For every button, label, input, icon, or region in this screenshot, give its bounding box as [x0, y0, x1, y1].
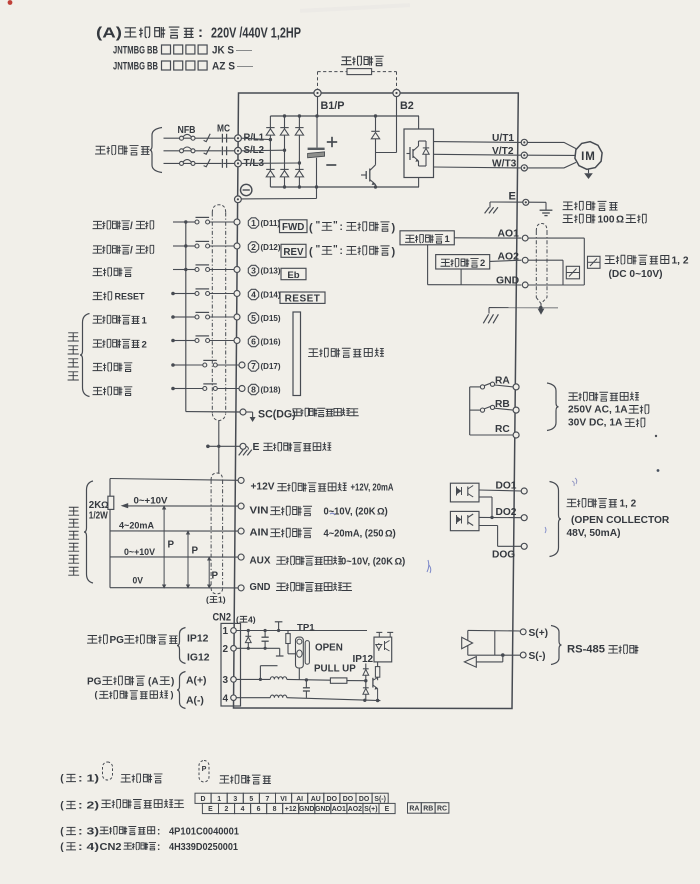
ground hatch shield E — [239, 446, 252, 455]
svg-text:RESET: RESET — [115, 292, 145, 303]
svg-text:3: 3 — [251, 266, 256, 276]
terminal E — [523, 199, 529, 205]
brake resistor label 刹车电阻 — [342, 56, 384, 65]
svg-text:AO1: AO1 — [498, 228, 520, 239]
wire DC- bottom bus — [270, 185, 419, 188]
terminal AO1 — [522, 235, 528, 241]
svg-text:(A: (A — [148, 676, 159, 687]
svg-text:RS-485: RS-485 — [567, 643, 605, 655]
svg-text::: : — [157, 827, 160, 838]
brace ext freq — [84, 481, 93, 583]
switch input 5 — [171, 312, 234, 319]
label 250V AC — [568, 404, 649, 415]
arrow P2 — [186, 530, 190, 589]
wire AUX row — [110, 556, 238, 558]
box FWD — [280, 220, 308, 233]
box REV — [281, 244, 306, 257]
terminal input 1 — [234, 219, 240, 225]
svg-text:IM: IM — [581, 151, 596, 163]
wire A+ to pullup — [287, 678, 331, 681]
svg-text:(: ( — [60, 801, 64, 812]
svg-text:(: ( — [309, 246, 313, 258]
switch input 6 — [171, 336, 234, 343]
meter M2 — [588, 256, 601, 268]
svg-text:FWD: FWD — [282, 222, 304, 233]
svg-text:CN2: CN2 — [100, 842, 123, 853]
label 电阻值100以下 — [563, 214, 647, 225]
svg-text:250V AC, 1A: 250V AC, 1A — [568, 404, 628, 415]
svg-text:——: —— — [236, 46, 252, 55]
svg-text:/: / — [130, 246, 133, 257]
terminal CN2-4 — [223, 693, 237, 704]
svg-text:VI: VI — [280, 796, 287, 803]
wire shield E — [206, 445, 240, 449]
terminal DOG — [521, 543, 527, 549]
node badge 8 — [248, 384, 258, 394]
brace open collector — [550, 482, 562, 557]
optocoupler DO2 — [450, 511, 479, 530]
potentiometer 2K — [108, 496, 114, 509]
note 1 — [60, 774, 99, 785]
connector CN2 block — [221, 623, 241, 706]
svg-text:(: ( — [60, 827, 64, 838]
box 类比输出1 — [400, 231, 454, 245]
svg-text:MC: MC — [217, 124, 231, 135]
wire CN2-4 A- — [236, 697, 270, 699]
svg-text:AIN: AIN — [250, 528, 269, 539]
svg-text:4~20mA: 4~20mA — [119, 520, 154, 531]
terminal V/T2 — [521, 152, 527, 158]
svg-text:(D18): (D18) — [261, 386, 281, 395]
terminal CN2-2 — [223, 644, 237, 655]
optocoupler IP12 — [374, 632, 393, 661]
terminal GND analog in — [238, 585, 244, 591]
svg-text:CN2: CN2 — [213, 612, 232, 624]
inverter module U1 — [404, 116, 434, 187]
label 48V 50mA — [567, 528, 621, 539]
wire A- row — [287, 698, 381, 703]
svg-text:DOG: DOG — [492, 550, 515, 561]
node badge 4 — [248, 289, 258, 299]
note 3 — [60, 827, 239, 838]
terminal DC minus — [235, 196, 242, 203]
svg-text:AI: AI — [296, 796, 303, 803]
label AUX row — [250, 556, 406, 568]
shielded cable envelope analog out — [536, 224, 547, 304]
terminal B1/P — [314, 89, 321, 96]
label 多机能输出1,2 — [567, 499, 637, 510]
svg-text:JNTMBG BB: JNTMBG BB — [113, 45, 158, 57]
svg-text:0~10V, (20K: 0~10V, (20K — [324, 507, 376, 518]
arrow P1 — [162, 505, 166, 589]
svg-text:: 2): : 2) — [78, 801, 99, 812]
svg-text:AO2: AO2 — [498, 252, 520, 263]
svg-text:2: 2 — [225, 806, 229, 813]
wire motor leads — [527, 142, 576, 168]
wire B1/P to DC bus — [317, 97, 319, 116]
svg-text:RA: RA — [495, 376, 510, 387]
wire CN2-2 IG12 — [236, 647, 279, 650]
meter M1 — [566, 266, 579, 279]
svg-text:DO: DO — [343, 796, 354, 803]
svg-text:(D13): (D13) — [261, 267, 281, 276]
label 注4 — [236, 614, 256, 624]
terminal input 5 — [234, 314, 240, 320]
svg-text:RC: RC — [437, 806, 447, 813]
motor IM — [575, 142, 602, 170]
svg-text:E: E — [253, 442, 260, 453]
brake chopper IGBT Q1 — [361, 153, 376, 188]
svg-text:100: 100 — [598, 214, 615, 225]
svg-text:1: 1 — [251, 218, 256, 228]
wire AIN row — [110, 530, 238, 532]
svg-text:(: ( — [309, 222, 313, 234]
wire SC common — [186, 411, 240, 413]
svg-text:): ) — [392, 222, 396, 234]
switch input 3 — [173, 265, 234, 272]
svg-text:AO2: AO2 — [348, 806, 362, 813]
label DC 0-10V — [609, 269, 663, 280]
scan artifact red dot — [8, 0, 13, 5]
node badge 6 — [248, 336, 258, 346]
wire analog left bus — [109, 479, 111, 588]
svg-text:B2: B2 — [400, 100, 414, 112]
terminal VIN — [238, 503, 244, 509]
terminal table RA RB RC — [408, 803, 449, 814]
wire phase T/L3 input — [164, 159, 235, 168]
terminal input 6 — [234, 338, 240, 344]
svg-text:6: 6 — [251, 337, 256, 347]
wire AO2 — [490, 260, 522, 261]
svg-text:Eb: Eb — [287, 270, 299, 281]
svg-text:7: 7 — [251, 361, 256, 371]
svg-text:PULL UP: PULL UP — [314, 663, 356, 674]
wire analog shield ground — [483, 308, 558, 324]
svg-text:: 3): : 3) — [78, 827, 99, 838]
wire AO1 — [454, 237, 521, 239]
wire S/L2 to rectifier — [241, 149, 286, 152]
svg-text::: : — [157, 842, 160, 853]
terminal GND analog — [522, 282, 528, 288]
svg-text:P: P — [212, 571, 219, 582]
svg-text:4H339D0250001: 4H339D0250001 — [169, 842, 238, 853]
ground hatch left of E — [485, 202, 498, 213]
capacitor C-PG — [262, 631, 269, 649]
svg-text:Ω: Ω — [616, 214, 624, 225]
note 4 — [60, 842, 238, 853]
svg-text:IG12: IG12 — [187, 653, 210, 664]
note1 label 表隔离绞线 — [220, 775, 271, 784]
svg-text:(OPEN COLLECTOR: (OPEN COLLECTOR — [571, 515, 670, 526]
svg-text:2: 2 — [142, 339, 147, 350]
labels left PG section — [88, 635, 178, 646]
terminal input 3 — [234, 267, 240, 273]
svg-text:): ) — [171, 676, 174, 687]
svg-text:5: 5 — [251, 313, 256, 323]
svg-text:IP12: IP12 — [353, 654, 374, 665]
svg-text::: : — [198, 24, 203, 41]
RS485 receive arrow — [464, 653, 504, 667]
wire T/L3 to rectifier — [241, 161, 301, 164]
svg-text:1, 2: 1, 2 — [620, 499, 637, 510]
note 2 — [60, 799, 183, 811]
svg-text:RESET: RESET — [285, 293, 321, 304]
svg-text:JNTMBG BB: JNTMBG BB — [113, 61, 158, 73]
label 外部异常 — [93, 268, 132, 277]
svg-text:(: ( — [236, 614, 239, 624]
svg-text:2K: 2K — [89, 500, 102, 511]
wire output W/T3 — [434, 166, 521, 169]
module diode symbol — [419, 141, 430, 166]
terminal AO2 — [522, 257, 528, 263]
svg-text:AO1: AO1 — [332, 806, 346, 813]
svg-text:): ) — [385, 507, 388, 518]
wire B2 to chopper — [376, 97, 397, 153]
svg-text:E: E — [385, 806, 390, 813]
switch input 4 — [171, 289, 234, 296]
note1 pill isolation — [103, 762, 113, 780]
capacitor C1 DC bus — [308, 116, 325, 187]
svg-text:": " — [333, 220, 338, 231]
svg-text:OPEN: OPEN — [315, 642, 343, 653]
svg-text:(: ( — [206, 595, 209, 605]
svg-text:+12V: +12V — [251, 482, 275, 493]
svg-text:E: E — [208, 806, 213, 813]
terminal S/L2 — [235, 147, 242, 154]
terminal U/T1 — [521, 139, 527, 145]
svg-text:RA: RA — [409, 806, 419, 813]
svg-text:DO: DO — [327, 796, 338, 803]
svg-text:W/T3: W/T3 — [492, 159, 517, 170]
svg-text:(D14): (D14) — [261, 291, 281, 300]
svg-text:": " — [316, 220, 321, 231]
label plus — [327, 137, 337, 147]
label PG信号输入 — [87, 676, 174, 687]
svg-text:REV: REV — [283, 247, 304, 258]
node badge 3 — [248, 265, 258, 275]
label 第三种接地 — [563, 201, 618, 210]
node badge 5 — [248, 313, 258, 323]
svg-text:P: P — [202, 764, 207, 773]
label RS-485 port — [567, 643, 638, 655]
svg-text:DO2: DO2 — [496, 507, 517, 518]
svg-text:220V /440V 1,2HP: 220V /440V 1,2HP — [211, 26, 301, 42]
wire DC minus to bus — [241, 187, 316, 199]
switch input 2 — [173, 241, 234, 248]
svg-text:4: 4 — [223, 693, 229, 704]
pen marks — [330, 478, 577, 573]
label 多机能接点输出 — [569, 392, 639, 401]
svg-text:VIN: VIN — [250, 506, 269, 517]
label 反向运转/停止 — [93, 245, 154, 256]
terminal input 4 — [234, 291, 240, 297]
terminal S- — [520, 652, 526, 658]
label 正向运转/停止 — [93, 221, 154, 232]
svg-text:1): 1) — [218, 595, 226, 605]
svg-text:8: 8 — [251, 385, 256, 395]
svg-text:): ) — [402, 557, 405, 568]
terminal SC — [240, 409, 246, 415]
label 30V DC — [568, 418, 645, 429]
brace factory setting — [80, 314, 90, 397]
label AIN row — [250, 528, 396, 540]
label minus — [326, 164, 336, 166]
terminal E shield — [240, 443, 246, 449]
wire phase S/L2 input — [164, 146, 235, 155]
terminal DO2 — [521, 515, 527, 521]
wire CN2-3 A+ — [236, 666, 277, 681]
transistor Q2 — [373, 678, 378, 701]
terminal input 8 — [239, 386, 245, 392]
label 2K ohm — [89, 500, 109, 522]
label 出厂设定 vertical — [68, 333, 78, 380]
resistor pull-up — [330, 678, 367, 683]
shielded cable envelope digital inputs — [212, 205, 225, 421]
stub case bottom — [276, 648, 284, 656]
svg-text:0~+10V: 0~+10V — [134, 495, 169, 506]
terminal CN2-1 — [223, 626, 237, 637]
svg-text:7: 7 — [266, 796, 270, 803]
svg-text:AU: AU — [311, 796, 321, 803]
svg-text:(D11): (D11) — [261, 219, 281, 228]
svg-text:+12: +12 — [285, 806, 297, 813]
svg-text:S(-): S(-) — [374, 796, 385, 803]
note1 label 表隔离线 — [121, 774, 162, 783]
shield drain arrow analog — [538, 304, 545, 315]
terminal DO1 — [521, 488, 527, 494]
svg-text:(D16): (D16) — [261, 338, 281, 347]
label 寸动指令 — [93, 363, 132, 372]
svg-text:: 4): : 4) — [78, 842, 99, 853]
svg-text:(: ( — [60, 774, 64, 785]
svg-text:B1/P: B1/P — [321, 100, 345, 112]
wire 0V row — [110, 587, 238, 589]
svg-text:RC: RC — [495, 424, 510, 435]
label 多段速指令1 — [93, 315, 148, 326]
terminal +12V — [238, 477, 244, 483]
svg-text:2: 2 — [251, 242, 256, 252]
svg-text:(: ( — [60, 842, 64, 853]
svg-text:1, 2: 1, 2 — [672, 256, 689, 267]
switch input 7 — [171, 360, 239, 367]
svg-text:RB: RB — [495, 399, 510, 410]
label 类比信号输出1,2 — [605, 255, 689, 266]
motor ground arrow — [584, 169, 593, 179]
inductor L2 — [270, 695, 287, 698]
wire digital common bus — [185, 222, 187, 412]
brake chopper diode D7 — [371, 116, 379, 153]
svg-text:: 1): : 1) — [78, 774, 99, 785]
box RESET — [280, 292, 325, 304]
model number line AZ — [113, 61, 253, 73]
svg-text:4: 4 — [241, 806, 245, 813]
DC minus symbol — [241, 184, 252, 195]
label +12V row — [251, 482, 394, 494]
svg-text:1: 1 — [223, 626, 229, 637]
resistor R-E — [375, 662, 379, 680]
label VIN row — [250, 506, 388, 518]
svg-text:(D15): (D15) — [261, 314, 281, 323]
svg-text:A(-): A(-) — [186, 695, 204, 706]
svg-text:0~+10V: 0~+10V — [124, 547, 156, 558]
svg-text:S(+): S(+) — [529, 628, 549, 639]
terminal RA — [513, 384, 519, 390]
svg-text:S(+): S(+) — [364, 806, 377, 813]
label SC(DG) — [258, 408, 358, 421]
svg-text:2: 2 — [480, 257, 485, 268]
label REV remark — [309, 244, 396, 258]
svg-text:4: 4 — [251, 290, 256, 300]
svg-text:AUX: AUX — [250, 556, 271, 567]
label OPEN COLLECTOR — [571, 515, 670, 526]
label 遮蔽线连接端子 — [264, 442, 332, 451]
label 注1 — [206, 595, 226, 605]
svg-text:TP1: TP1 — [297, 622, 315, 633]
switch input 8 — [171, 384, 239, 391]
svg-text:4~20mA, (250: 4~20mA, (250 — [324, 529, 385, 540]
wire DO1 emitter — [479, 497, 494, 519]
svg-text:V/T2: V/T2 — [492, 146, 514, 157]
svg-text:S(-): S(-) — [529, 651, 546, 662]
jumper TP1 — [296, 637, 310, 668]
relay contact RA — [470, 382, 514, 389]
svg-text:48V, 50mA): 48V, 50mA) — [567, 528, 621, 539]
svg-text:PG: PG — [110, 635, 125, 646]
TP1 to A+ wire — [298, 668, 300, 680]
brace main power — [150, 128, 163, 173]
svg-text:GND: GND — [299, 806, 314, 813]
svg-text:GND: GND — [250, 582, 271, 593]
terminal W/T3 — [521, 165, 527, 171]
svg-text:JK S: JK S — [212, 45, 234, 57]
svg-text:P: P — [168, 540, 175, 551]
svg-text:SC(DG): SC(DG) — [258, 409, 296, 421]
label GND row — [250, 582, 352, 593]
brace RS485 — [551, 626, 562, 665]
note1 pill twisted — [199, 761, 209, 783]
svg-text:(: ( — [95, 690, 98, 700]
svg-text:(DC 0~10V): (DC 0~10V) — [609, 269, 663, 280]
wire VIN row with wiper arrow — [121, 503, 239, 508]
terminal input 7 — [239, 362, 245, 368]
brace PG supply — [177, 628, 186, 664]
ground bars right of E — [540, 202, 553, 215]
brace PG input — [177, 672, 186, 709]
svg-text:4P101C0040001: 4P101C0040001 — [169, 827, 239, 838]
wire E ground — [490, 201, 546, 203]
label 外部频率指令 vertical — [69, 507, 79, 575]
node badge 7 — [248, 361, 258, 371]
optocoupler DO1 — [450, 483, 479, 502]
svg-text:": " — [316, 244, 321, 255]
arrow P3 — [207, 556, 211, 589]
svg-text::: : — [340, 246, 343, 257]
wire meter loop AO1 — [528, 238, 584, 285]
wire DO1 — [479, 490, 521, 491]
svg-text:0~10V, (20K: 0~10V, (20K — [341, 557, 393, 568]
svg-text:E: E — [509, 191, 516, 203]
terminal B2 — [393, 89, 400, 96]
terminal RC — [513, 432, 519, 438]
dashed wire B1/P to brake resistor — [318, 72, 348, 90]
terminal CN2-3 — [223, 675, 237, 686]
terminal input 2 — [234, 243, 240, 249]
svg-text:DO1: DO1 — [496, 480, 517, 491]
wire output V/T2 — [434, 153, 521, 156]
RS485 driver triangle — [462, 637, 473, 648]
svg-text:D: D — [201, 796, 206, 803]
svg-text:1: 1 — [142, 315, 148, 326]
